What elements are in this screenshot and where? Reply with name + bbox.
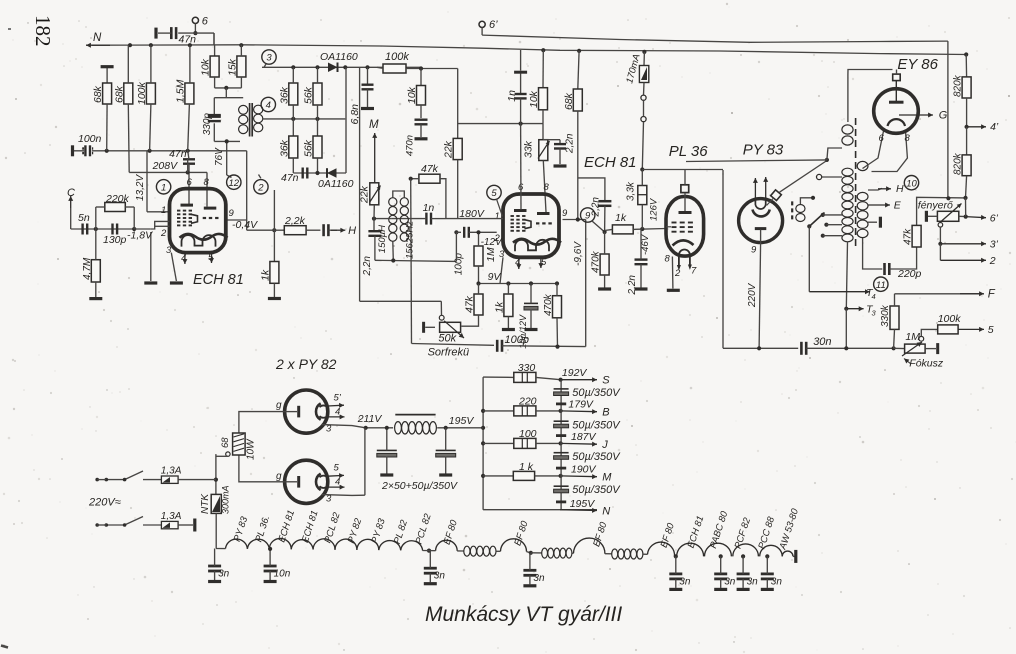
svg-text:F: F (988, 289, 996, 301)
svg-text:1k: 1k (494, 301, 506, 313)
svg-text:OA1160: OA1160 (320, 51, 358, 63)
svg-text:2,2n: 2,2n (591, 197, 602, 218)
svg-text:300mA: 300mA (221, 485, 231, 514)
svg-text:N: N (602, 506, 610, 518)
svg-text:100k: 100k (938, 313, 962, 325)
svg-text:9V: 9V (488, 271, 502, 283)
svg-text:5n: 5n (78, 212, 90, 224)
svg-text:2,2k: 2,2k (284, 215, 306, 227)
svg-text:fényerő: fényerő (918, 200, 953, 212)
svg-text:100k: 100k (136, 81, 148, 105)
svg-text:3n: 3n (533, 573, 545, 584)
svg-text:1,3A: 1,3A (161, 511, 182, 522)
svg-text:76V: 76V (214, 147, 225, 166)
svg-text:126V: 126V (649, 197, 660, 221)
svg-text:192V: 192V (562, 367, 588, 379)
svg-text:12: 12 (229, 178, 240, 189)
svg-text:2,2n: 2,2n (362, 256, 373, 277)
svg-text:10: 10 (906, 178, 917, 189)
svg-text:68: 68 (220, 437, 231, 448)
svg-text:330: 330 (518, 362, 536, 374)
svg-text:-9,6V: -9,6V (573, 241, 584, 266)
svg-text:47k: 47k (421, 163, 439, 175)
svg-text:1,5M: 1,5M (175, 79, 187, 103)
svg-text:PY 83: PY 83 (743, 142, 784, 159)
svg-text:22k: 22k (359, 185, 371, 204)
svg-text:330k: 330k (880, 304, 891, 327)
svg-text:8: 8 (905, 133, 911, 144)
svg-text:30n: 30n (813, 336, 831, 348)
svg-text:15625Hz: 15625Hz (405, 221, 416, 259)
svg-text:3: 3 (266, 53, 272, 64)
svg-text:10W: 10W (246, 438, 257, 460)
svg-text:J: J (601, 439, 608, 451)
svg-text:-12V: -12V (481, 237, 503, 248)
svg-text:4,7M: 4,7M (82, 257, 93, 280)
svg-text:3n: 3n (218, 569, 230, 580)
svg-text:2,2n: 2,2n (627, 275, 638, 296)
svg-text:68k: 68k (92, 85, 104, 103)
svg-text:1n: 1n (506, 90, 518, 102)
svg-text:13,2V: 13,2V (135, 174, 146, 201)
svg-text:4: 4 (335, 407, 340, 418)
svg-text:ECH 81: ECH 81 (584, 154, 637, 171)
svg-text:1n: 1n (423, 202, 435, 214)
svg-text:ECH 81: ECH 81 (193, 272, 244, 288)
svg-text:820k: 820k (953, 74, 964, 97)
svg-text:47n: 47n (281, 172, 299, 184)
svg-text:N: N (93, 32, 102, 44)
svg-text:1k: 1k (260, 269, 272, 281)
svg-text:E: E (894, 200, 902, 212)
svg-text:4: 4 (266, 100, 271, 111)
svg-text:g: g (276, 471, 282, 482)
svg-text:PL 36: PL 36 (669, 143, 709, 160)
svg-text:56k: 56k (303, 139, 315, 157)
svg-text:208V: 208V (152, 160, 179, 172)
svg-text:3n: 3n (679, 576, 691, 587)
svg-text:33k: 33k (523, 140, 535, 158)
svg-text:M: M (602, 472, 612, 484)
svg-text:330p: 330p (202, 113, 213, 136)
svg-text:100n: 100n (78, 133, 102, 145)
svg-text:10n: 10n (274, 569, 291, 580)
svg-text:100p: 100p (454, 253, 465, 276)
svg-text:NTK: NTK (200, 493, 211, 514)
svg-text:100k: 100k (385, 51, 409, 63)
svg-text:8: 8 (544, 182, 550, 193)
svg-text:6,8n: 6,8n (349, 104, 361, 125)
svg-text:220V≈: 220V≈ (88, 497, 121, 509)
svg-text:4’: 4’ (990, 121, 999, 133)
svg-text:10k: 10k (406, 86, 418, 104)
svg-text:H: H (348, 225, 356, 237)
svg-text:47n: 47n (179, 34, 197, 46)
svg-text:187V: 187V (571, 431, 597, 443)
svg-text:36k: 36k (279, 139, 291, 157)
svg-text:g: g (276, 400, 282, 411)
svg-text:2,2n: 2,2n (565, 133, 576, 154)
svg-text:5’: 5’ (334, 393, 342, 404)
svg-text:6’: 6’ (489, 19, 498, 31)
svg-text:8: 8 (665, 254, 671, 265)
svg-text:50k: 50k (438, 333, 456, 345)
svg-text:1,3A: 1,3A (161, 466, 182, 477)
svg-text:2: 2 (989, 255, 996, 267)
svg-text:1 k: 1 k (519, 461, 534, 473)
svg-text:-1,8V: -1,8V (127, 230, 153, 242)
svg-text:195V: 195V (570, 498, 596, 510)
svg-text:Munkácsy VT gyár/III: Munkácsy VT gyár/III (425, 603, 622, 626)
svg-text:22k: 22k (443, 140, 455, 159)
svg-text:5: 5 (988, 324, 994, 336)
svg-text:-0,4V: -0,4V (232, 219, 258, 231)
svg-text:47k: 47k (464, 295, 476, 313)
svg-text:50µ/350V: 50µ/350V (572, 451, 621, 463)
svg-text:3n: 3n (747, 576, 759, 587)
svg-text:4: 4 (335, 477, 340, 488)
svg-text:179V: 179V (568, 399, 594, 411)
svg-text:470k: 470k (543, 293, 554, 316)
svg-text:220p: 220p (897, 268, 922, 280)
svg-text:100: 100 (519, 428, 537, 440)
svg-text:47k: 47k (903, 228, 914, 245)
svg-text:15k: 15k (227, 58, 239, 76)
svg-text:G: G (939, 110, 948, 122)
svg-text:470k: 470k (591, 250, 602, 273)
svg-text:3n: 3n (724, 576, 736, 587)
svg-text:1: 1 (161, 182, 166, 193)
svg-text:2 x PY 82: 2 x PY 82 (275, 356, 337, 372)
svg-text:9: 9 (562, 208, 568, 219)
svg-text:B: B (602, 407, 609, 419)
svg-text:6: 6 (187, 177, 193, 188)
svg-text:50µ/350V: 50µ/350V (572, 387, 621, 399)
svg-text:7: 7 (691, 266, 697, 277)
svg-text:6: 6 (879, 133, 885, 144)
svg-text:-46V: -46V (640, 233, 651, 255)
svg-text:6’: 6’ (990, 213, 999, 225)
svg-text:3’: 3’ (990, 239, 999, 251)
svg-text:3n: 3n (434, 571, 446, 582)
svg-text:68k: 68k (563, 92, 575, 110)
svg-text:5: 5 (541, 257, 547, 268)
svg-text:6: 6 (202, 16, 209, 28)
svg-text:4: 4 (872, 292, 876, 301)
svg-text:150µH: 150µH (377, 225, 388, 253)
svg-text:11: 11 (876, 280, 886, 291)
svg-text:220: 220 (518, 396, 537, 408)
svg-text:820k: 820k (953, 152, 964, 175)
svg-text:130p: 130p (103, 234, 127, 246)
svg-text:190V: 190V (571, 464, 597, 476)
svg-text:9: 9 (751, 245, 757, 256)
svg-text:1: 1 (161, 205, 166, 216)
svg-text:2: 2 (257, 182, 264, 193)
svg-text:195V: 195V (449, 415, 475, 427)
svg-text:Sorfrekü: Sorfrekü (428, 347, 470, 359)
svg-text:1k: 1k (615, 212, 627, 224)
svg-text:8: 8 (204, 177, 210, 188)
svg-text:211V: 211V (357, 413, 383, 425)
svg-text:100p: 100p (505, 334, 529, 346)
svg-text:9: 9 (229, 208, 235, 219)
svg-text:50µ/350V: 50µ/350V (572, 420, 621, 432)
svg-text:220k: 220k (105, 193, 130, 205)
svg-text:36k: 36k (279, 86, 291, 104)
svg-text:5: 5 (491, 188, 497, 199)
svg-text:470n: 470n (405, 135, 416, 156)
svg-text:M: M (369, 119, 379, 131)
svg-text:10k: 10k (528, 90, 540, 108)
svg-text:50µ/350V: 50µ/350V (572, 484, 621, 496)
svg-text:10k: 10k (200, 58, 212, 76)
svg-text:0A1160: 0A1160 (318, 178, 354, 190)
svg-text:2×50+50µ/350V: 2×50+50µ/350V (381, 480, 458, 492)
svg-text:Fókusz: Fókusz (909, 358, 944, 370)
svg-text:2: 2 (674, 268, 681, 279)
svg-text:182: 182 (31, 15, 55, 47)
svg-text:1M: 1M (905, 331, 920, 343)
svg-text:1M: 1M (485, 247, 497, 262)
svg-text:5: 5 (334, 463, 340, 474)
svg-text:1: 1 (495, 211, 500, 222)
svg-text:S: S (602, 375, 610, 387)
svg-text:56k: 56k (303, 86, 315, 104)
svg-text:3: 3 (499, 249, 505, 260)
svg-text:220V: 220V (747, 282, 758, 308)
svg-text:68k: 68k (114, 85, 126, 103)
svg-text:3n: 3n (771, 576, 783, 587)
svg-text:EY 86: EY 86 (897, 56, 938, 73)
svg-text:H: H (896, 183, 904, 195)
svg-text:3,3k: 3,3k (626, 181, 637, 201)
svg-text:2: 2 (160, 228, 167, 239)
